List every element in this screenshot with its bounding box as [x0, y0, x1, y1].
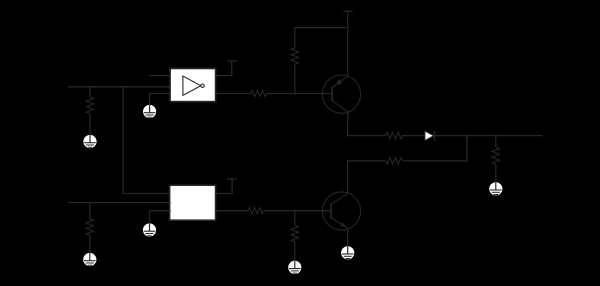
Q1 emitter diagonal — [332, 76, 348, 88]
ground G1 — [83, 135, 96, 148]
wire PWR2 down to Q1 emitter — [347, 11, 349, 76]
Q2 emitter arrow (points out) — [340, 222, 346, 227]
inverter triangle U1 — [183, 76, 201, 95]
resistor R1 — [86, 97, 93, 114]
wire R1 top lead — [89, 87, 91, 97]
power tap PWR1 T-bar — [227, 60, 235, 62]
wire R7 to Q2 base — [264, 210, 332, 212]
wire G2 riser — [149, 94, 151, 106]
wire R9 top lead — [89, 203, 91, 219]
node J1 (IN1/R1) — [89, 86, 91, 88]
node J4 (VCC rail) — [347, 27, 349, 29]
transistor Q2 (NPN) — [322, 192, 360, 230]
ground G3 — [83, 253, 96, 266]
wire Q1 collector down — [348, 112, 386, 136]
wire R1 to G1 — [89, 114, 91, 136]
wire R9 to G3 — [89, 235, 91, 253]
resistor R3 — [291, 48, 298, 65]
wire U2 output — [215, 210, 248, 212]
wire Q2 emitter to G6 — [347, 228, 349, 247]
resistor R6 — [492, 147, 499, 164]
power tap PWR2 T-bar — [343, 10, 352, 12]
ground G4 — [143, 223, 156, 236]
wire stub U1 pin bottom-left to G2 — [150, 93, 171, 95]
node J5 (feedback junction) — [466, 135, 468, 137]
ground G2 — [143, 105, 156, 118]
resistor R5 — [386, 158, 403, 165]
node J3 (base/R3) — [294, 93, 296, 95]
node J7 (IN2/R9) — [89, 202, 91, 204]
wire R6 top lead — [495, 136, 497, 148]
resistor R7 — [248, 208, 263, 214]
resistor R8 — [291, 225, 298, 242]
wire net IN1 top horizontal — [68, 86, 171, 88]
node J2 (IN1/vertical) — [122, 86, 124, 88]
power tap PWR3 T-bar — [227, 178, 236, 180]
ground G5 — [288, 261, 301, 274]
ground G7 — [489, 182, 502, 195]
wire R8 top lead — [294, 211, 296, 226]
wire U2 power pin — [215, 179, 232, 193]
Q1 collector diagonal — [332, 101, 348, 113]
Q1 base bar — [331, 86, 333, 101]
Q2 base bar — [330, 203, 332, 218]
Q2 emitter diagonal — [331, 218, 347, 228]
red dot artifact — [236, 60, 237, 61]
wire R8 to G5 — [294, 242, 296, 261]
wire feedback vertical — [403, 136, 467, 161]
node J8 (base/R8) — [294, 210, 296, 212]
wire R6 to G7 — [495, 164, 497, 182]
wire IN2 bottom horizontal — [68, 202, 171, 204]
wire R4 to D1 — [402, 135, 424, 137]
wire R3 top to VCC rail — [295, 28, 348, 48]
wire D1 cathode to output — [435, 135, 543, 137]
Q2 collector diagonal — [331, 194, 348, 204]
wire R5 to Q2 collector riser — [348, 161, 386, 194]
node J6 (R6 junction) — [495, 135, 497, 137]
op-amp U1 inverter box — [170, 69, 216, 102]
inverter bubble U1 — [201, 84, 204, 87]
resistor R2 — [251, 90, 266, 96]
transistor Q1 (PNP) — [322, 75, 360, 113]
box U2 — [170, 185, 216, 220]
wire R3 bottom lead — [294, 64, 296, 93]
resistor R4 — [386, 132, 403, 139]
wire stub U2 pin bottom-left to G4 — [150, 210, 171, 212]
Q1 emitter arrow (points to base) — [336, 79, 342, 85]
wire U1 output — [215, 93, 251, 95]
wire stub U1 pin top-left — [149, 75, 171, 77]
wire U1 power pin — [215, 62, 232, 76]
diode D1 — [425, 131, 435, 141]
wire R2 to Q1 base — [266, 93, 332, 95]
wire G4 riser — [149, 211, 151, 224]
ground G6 — [341, 246, 354, 259]
wire vertical IN1 to U2 — [123, 87, 171, 194]
resistor R9 — [86, 219, 93, 236]
